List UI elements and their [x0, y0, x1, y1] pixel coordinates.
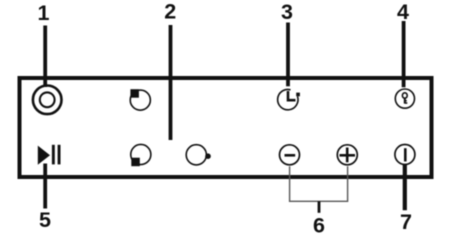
icon 1: dual-zone selector (double circle)	[33, 86, 62, 115]
leader line 1	[43, 26, 47, 88]
svg-text:5: 5	[39, 208, 51, 232]
icon plus	[337, 145, 357, 165]
leader line 2	[169, 25, 173, 140]
svg-text:4: 4	[397, 0, 409, 24]
stub to 6	[318, 201, 321, 213]
icon 5: play/pause	[38, 146, 50, 165]
icon minus	[280, 145, 300, 165]
bracket for 6	[290, 166, 348, 201]
leader line 4	[402, 21, 406, 87]
icon 7: on/off	[395, 145, 415, 165]
svg-text:3: 3	[281, 0, 293, 24]
svg-text:6: 6	[313, 213, 325, 237]
icon 3: timer clock	[278, 89, 298, 109]
svg-text:1: 1	[38, 1, 50, 25]
icon 6a: zone indicator, square bottom-left	[131, 144, 151, 164]
leader line 3	[286, 23, 290, 87]
svg-text:7: 7	[400, 210, 412, 234]
icon 4: key lock	[395, 89, 414, 108]
svg-text:2: 2	[164, 0, 176, 24]
icon 6b: zone indicator, dot right	[186, 145, 206, 165]
leader line 5	[43, 164, 47, 209]
icon 2: zone indicator, square top-left	[130, 90, 150, 110]
panel outline	[20, 78, 432, 177]
leader line 7	[403, 164, 407, 210]
